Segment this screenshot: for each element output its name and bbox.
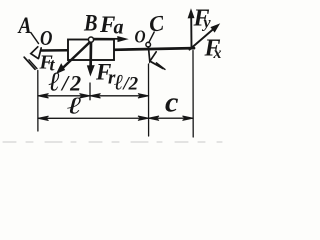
support A bracket [31, 47, 38, 59]
support C hatching [151, 62, 163, 69]
dimension line l and c [38, 117, 193, 119]
support C bracket [148, 47, 156, 61]
block (gear) at B [68, 40, 114, 61]
force Fx arrow (diagonal up-right) [190, 29, 215, 50]
beam left segment [41, 49, 68, 52]
extension line right end [192, 51, 194, 138]
support A hatching [24, 57, 35, 69]
force Fy arrow [190, 16, 192, 48]
leader line A to pivot [31, 33, 39, 44]
beam right segment [114, 48, 194, 50]
svg-text:a: a [114, 17, 124, 39]
svg-text:O: O [40, 28, 53, 51]
force Fr arrow (down from B) [89, 42, 92, 68]
svg-text:A: A [17, 12, 32, 38]
svg-text:c: c [165, 87, 178, 118]
force Fa arrow (right from B) [94, 38, 121, 40]
pivot circle B [88, 37, 93, 42]
svg-text:x: x [213, 45, 222, 62]
centerline (dash) at bottom [3, 141, 222, 143]
svg-text:ℓ: ℓ [67, 93, 82, 119]
support C pivot circle [146, 42, 151, 47]
extension line middle (B) [89, 83, 91, 100]
svg-text:y: y [202, 15, 212, 32]
dimension line l/2 l/2 [38, 95, 149, 97]
svg-text:B: B [83, 9, 97, 36]
svg-text:O: O [135, 26, 146, 46]
svg-text:ℓ/2: ℓ/2 [114, 70, 139, 95]
extension line C [148, 64, 150, 136]
force Ft arrow (diagonal through block) [61, 42, 91, 70]
extension line left (A) [37, 71, 39, 132]
leader line C to pivot [149, 32, 154, 43]
